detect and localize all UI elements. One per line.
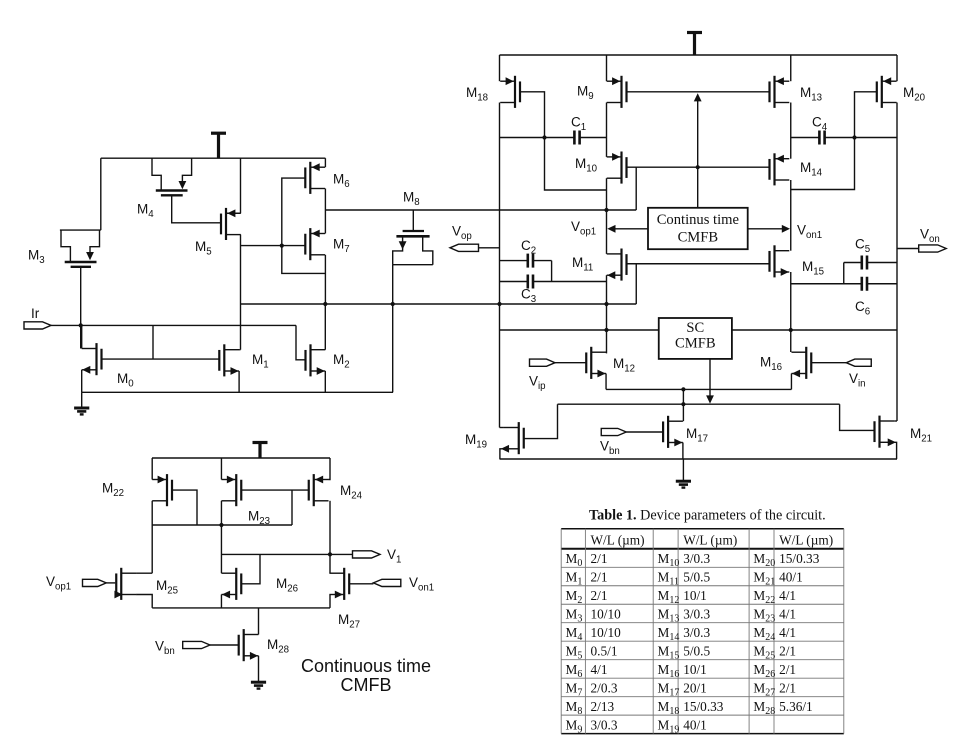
svg-text:C3: C3 bbox=[521, 287, 536, 306]
svg-text:M12: M12 bbox=[658, 588, 680, 606]
port Von1_c bbox=[373, 579, 400, 586]
svg-text:M27: M27 bbox=[753, 681, 775, 699]
wire Vin lead bbox=[812, 362, 847, 364]
transistor M17 bbox=[663, 416, 683, 448]
svg-text:M15: M15 bbox=[802, 259, 824, 278]
transistor M0 bbox=[82, 343, 102, 375]
wire SC output down bbox=[709, 359, 711, 400]
port Vop1_c bbox=[83, 579, 107, 586]
wire C6 left lead bbox=[791, 283, 862, 285]
wire M5-M7 gate wire bbox=[241, 245, 306, 247]
VDD supply bbox=[253, 443, 268, 459]
wire M9 drain up bbox=[606, 55, 608, 81]
svg-text:M9: M9 bbox=[566, 718, 583, 736]
svg-text:M20: M20 bbox=[753, 551, 775, 569]
svg-text:M8: M8 bbox=[403, 190, 420, 209]
ground bbox=[676, 481, 691, 487]
svg-text:Vin: Vin bbox=[849, 371, 866, 390]
svg-text:M7: M7 bbox=[333, 237, 350, 256]
svg-text:M18: M18 bbox=[466, 85, 488, 104]
svg-text:M23: M23 bbox=[753, 607, 775, 625]
wire C5-C6 join bbox=[843, 263, 845, 284]
junction M8 line at VSS wire bbox=[391, 302, 395, 306]
wire M13 drain up bbox=[790, 55, 792, 81]
wire M19 source down bbox=[500, 449, 504, 459]
wire M9 source down bbox=[606, 103, 608, 157]
wire M2 drain up bbox=[324, 304, 326, 350]
svg-text:M22: M22 bbox=[753, 588, 775, 606]
arrow Von1 bbox=[782, 225, 790, 233]
junction bias at cascode node bbox=[604, 208, 608, 212]
wire Ir to gate wire tap bbox=[152, 325, 154, 359]
wire Von1 wire bbox=[748, 228, 789, 230]
transistor M14 bbox=[770, 153, 790, 185]
transistor M28 bbox=[239, 629, 259, 661]
svg-text:M5: M5 bbox=[566, 644, 583, 662]
VDD supply bbox=[687, 33, 702, 56]
svg-text:CMFB: CMFB bbox=[678, 230, 719, 246]
transistor M3 bbox=[60, 230, 101, 267]
svg-text:M26: M26 bbox=[753, 662, 775, 680]
wire M12 source down bbox=[605, 374, 607, 390]
wire VSS wire bbox=[241, 303, 637, 305]
svg-text:M23: M23 bbox=[248, 509, 270, 528]
svg-text:Von: Von bbox=[920, 227, 940, 246]
block SC CMFB bbox=[659, 318, 732, 359]
wire M27 source down bbox=[329, 595, 331, 608]
wire M5 source down to M1 drain bbox=[240, 235, 242, 350]
port Vin bbox=[846, 359, 871, 366]
svg-text:5.36/1: 5.36/1 bbox=[779, 699, 813, 714]
block Continus time CMFB bbox=[648, 208, 748, 249]
svg-text:Table 1. Device parameters of: Table 1. Device parameters of the circui… bbox=[589, 508, 826, 524]
svg-text:10/1: 10/1 bbox=[683, 588, 707, 603]
svg-text:W/L (µm): W/L (µm) bbox=[591, 532, 645, 547]
wire M24 drain down bbox=[329, 501, 331, 573]
svg-text:M21: M21 bbox=[910, 426, 932, 445]
svg-text:Vbn: Vbn bbox=[155, 639, 175, 658]
capacitor C5 bbox=[862, 256, 867, 270]
transistor M23 bbox=[221, 474, 241, 506]
wire right column bbox=[896, 103, 898, 422]
wire C6 right lead bbox=[867, 283, 897, 285]
svg-text:M13: M13 bbox=[658, 607, 680, 625]
svg-text:M28: M28 bbox=[753, 699, 775, 717]
wire M2 source down bbox=[324, 371, 326, 392]
capacitor C6 bbox=[862, 277, 867, 291]
svg-text:SC: SC bbox=[686, 320, 704, 336]
wire M25 drain up bbox=[136, 572, 152, 574]
wire M18 gate line bbox=[521, 92, 607, 190]
svg-text:M15: M15 bbox=[658, 644, 680, 662]
svg-text:Ir: Ir bbox=[31, 306, 40, 321]
svg-text:5/0.5: 5/0.5 bbox=[683, 570, 710, 585]
wire main bottom rail bbox=[500, 458, 898, 460]
svg-text:Continuous time: Continuous time bbox=[301, 656, 431, 676]
junction M18 gate at C1 wire bbox=[542, 135, 546, 139]
wire Vop1 lead bbox=[106, 582, 115, 584]
wire C4 left lead bbox=[791, 137, 820, 139]
wire gate wire to mirror node bbox=[291, 490, 293, 525]
svg-text:C1: C1 bbox=[571, 115, 586, 134]
wire M19 drain up bbox=[500, 427, 504, 429]
wire M28 source down bbox=[258, 656, 260, 681]
junction Ir node at M3 gate bbox=[79, 323, 83, 327]
wire tail to M17 drain bbox=[682, 389, 684, 421]
svg-text:M6: M6 bbox=[566, 662, 583, 680]
wire M22 gate loop bbox=[172, 490, 197, 525]
transistor M9 bbox=[607, 76, 627, 108]
svg-text:M0: M0 bbox=[566, 551, 583, 569]
VDD supply bbox=[211, 133, 226, 158]
junction M11 source at VSS bbox=[604, 302, 608, 306]
wire CMFB output to M9/M13 gates bbox=[697, 97, 699, 208]
svg-text:M14: M14 bbox=[658, 625, 680, 643]
wire M16 source down bbox=[790, 374, 792, 390]
wire C3 right lead bbox=[533, 281, 607, 283]
wire M1 source down bbox=[238, 371, 240, 392]
svg-text:2/1: 2/1 bbox=[591, 570, 608, 585]
wire M24 source up bbox=[329, 458, 330, 480]
junction M17 drain at tail wire bbox=[681, 387, 685, 391]
wire M21 source down bbox=[894, 442, 896, 459]
wire M13 source down bbox=[790, 103, 792, 159]
svg-text:M8: M8 bbox=[566, 699, 583, 717]
wire left ground rail bbox=[82, 391, 393, 393]
wire M4 gate to M5 gate bbox=[172, 195, 221, 223]
junction vss crossing left column bbox=[497, 302, 501, 306]
svg-text:3/0.3: 3/0.3 bbox=[591, 718, 618, 733]
wire M27 gate lead bbox=[349, 583, 373, 585]
wire M6 drain down to bias node bbox=[324, 189, 326, 234]
wire cmfb VDD rail bbox=[152, 457, 330, 459]
svg-text:C4: C4 bbox=[812, 115, 828, 134]
wire M23-M24 gate wire bbox=[241, 489, 308, 491]
svg-text:M6: M6 bbox=[333, 172, 350, 191]
svg-text:M25: M25 bbox=[753, 644, 775, 662]
svg-text:M1: M1 bbox=[252, 352, 269, 371]
capacitor C2 bbox=[528, 254, 533, 268]
wire C5 left lead bbox=[844, 262, 862, 264]
transistor M22 bbox=[152, 474, 172, 506]
arrow CMFB up bbox=[694, 93, 702, 101]
wire M3 top bar to rail bbox=[100, 158, 102, 230]
wire VSS riser to cascode gates bbox=[635, 264, 637, 304]
arrow SC down bbox=[706, 395, 714, 403]
wire V1 wire bbox=[221, 553, 352, 555]
wire main ground stem bbox=[682, 459, 684, 480]
wire M21 drain up bbox=[894, 420, 897, 422]
wire M5 drain to rail bbox=[226, 212, 241, 214]
wire M21 gate loop bbox=[840, 404, 875, 430]
svg-text:CMFB: CMFB bbox=[341, 675, 392, 695]
svg-text:2/0.3: 2/0.3 bbox=[591, 681, 618, 696]
wire M22 source up bbox=[151, 458, 153, 480]
port Vbn_c bbox=[183, 641, 210, 648]
wire M22 drain down bbox=[151, 501, 153, 525]
junction M15 source at SC wire bbox=[789, 328, 793, 332]
svg-text:4/1: 4/1 bbox=[779, 588, 796, 603]
svg-text:4/1: 4/1 bbox=[779, 607, 796, 622]
svg-text:M25: M25 bbox=[156, 578, 178, 597]
wire bias wire first-stage output bbox=[325, 209, 636, 211]
svg-text:3/0.3: 3/0.3 bbox=[683, 607, 710, 622]
wire SC right wire bbox=[732, 329, 897, 331]
wire M1 drain up bbox=[239, 349, 240, 351]
wire M25 source down bbox=[136, 595, 152, 608]
wire M11 source down bbox=[606, 275, 608, 353]
wire left column top bbox=[499, 55, 501, 81]
svg-text:M20: M20 bbox=[903, 85, 926, 104]
wire C3 left lead bbox=[500, 281, 528, 283]
wire M19-M21 gate wire bbox=[558, 403, 840, 405]
port Von bbox=[919, 245, 947, 252]
junction M20 gate at C4 wire bbox=[852, 135, 856, 139]
svg-text:2/1: 2/1 bbox=[779, 644, 796, 659]
svg-text:10/1: 10/1 bbox=[683, 662, 707, 677]
svg-text:M0: M0 bbox=[117, 371, 134, 390]
wire C5 right lead bbox=[867, 262, 897, 264]
transistor M10 bbox=[607, 152, 627, 184]
svg-text:CMFB: CMFB bbox=[675, 336, 716, 352]
wire M9-M13 gate wire bbox=[627, 91, 770, 93]
transistor M2 bbox=[306, 344, 326, 376]
svg-text:C6: C6 bbox=[855, 299, 870, 318]
svg-text:M13: M13 bbox=[800, 85, 822, 104]
svg-text:Von1: Von1 bbox=[797, 223, 822, 242]
svg-text:M10: M10 bbox=[575, 156, 598, 175]
svg-text:Vop1: Vop1 bbox=[571, 219, 596, 238]
junction V1 at M24 drain bbox=[328, 552, 332, 556]
wire tail wire bbox=[606, 388, 791, 390]
svg-text:M14: M14 bbox=[800, 160, 823, 179]
wire C1 left lead bbox=[500, 137, 575, 139]
wire left VDD rail bbox=[101, 157, 326, 159]
wire Vbn lead bbox=[626, 431, 663, 433]
svg-text:4/1: 4/1 bbox=[779, 625, 796, 640]
svg-text:2/1: 2/1 bbox=[591, 588, 608, 603]
svg-text:M19: M19 bbox=[465, 432, 487, 451]
transistor M11 bbox=[607, 249, 627, 281]
svg-text:10/10: 10/10 bbox=[591, 607, 622, 622]
transistor M16 bbox=[791, 347, 811, 379]
transistor M19 bbox=[501, 422, 524, 454]
port Ir bbox=[24, 322, 51, 329]
wire SC left wire bbox=[500, 329, 659, 331]
svg-text:2/13: 2/13 bbox=[591, 699, 615, 714]
wire M23 drain down bbox=[220, 501, 222, 573]
svg-text:M18: M18 bbox=[658, 699, 680, 717]
capacitor C1 bbox=[574, 131, 579, 145]
transistor M12 bbox=[586, 347, 606, 379]
transistor M6 bbox=[305, 162, 325, 194]
wire mirror node wire bbox=[152, 524, 292, 526]
svg-text:M7: M7 bbox=[566, 681, 583, 699]
wire M25 drain riser bbox=[151, 525, 153, 573]
transistor M20 bbox=[877, 76, 897, 108]
svg-text:M11: M11 bbox=[658, 570, 679, 588]
svg-text:M4: M4 bbox=[566, 625, 583, 643]
transistor M4 bbox=[152, 158, 192, 195]
svg-text:2/1: 2/1 bbox=[779, 681, 796, 696]
svg-text:M27: M27 bbox=[338, 612, 360, 631]
transistor M5 bbox=[221, 208, 241, 240]
svg-text:M28: M28 bbox=[267, 637, 289, 656]
transistor M24 bbox=[309, 474, 329, 506]
wire M10 source down bbox=[606, 178, 608, 254]
transistor M13 bbox=[770, 76, 790, 108]
wire M11-M15 gate wire bbox=[627, 263, 770, 265]
svg-text:M22: M22 bbox=[102, 481, 124, 500]
junction M23 drain at mirror wire bbox=[219, 523, 223, 527]
wire Von lead bbox=[897, 248, 919, 250]
wire M10-M14 gate wire bbox=[627, 166, 770, 168]
svg-text:V1: V1 bbox=[387, 547, 401, 566]
wire M6 source to rail bbox=[324, 158, 326, 167]
svg-text:2/1: 2/1 bbox=[779, 662, 796, 677]
svg-text:0.5/1: 0.5/1 bbox=[591, 644, 618, 659]
wire Ir wire bbox=[51, 324, 296, 326]
svg-text:Vbn: Vbn bbox=[600, 439, 620, 458]
svg-text:M17: M17 bbox=[686, 426, 708, 445]
svg-text:M24: M24 bbox=[753, 625, 775, 643]
svg-text:40/1: 40/1 bbox=[683, 718, 707, 733]
wire M0-M1 gate wire bbox=[102, 358, 220, 360]
wire M19 gate loop bbox=[524, 404, 557, 438]
svg-text:M9: M9 bbox=[577, 84, 594, 103]
svg-text:W/L (µm): W/L (µm) bbox=[683, 532, 737, 547]
svg-text:M4: M4 bbox=[137, 202, 154, 221]
svg-text:Vop: Vop bbox=[452, 224, 472, 243]
transistor M21 bbox=[875, 416, 896, 448]
svg-text:Continus time: Continus time bbox=[657, 212, 739, 228]
svg-text:3/0.3: 3/0.3 bbox=[683, 551, 710, 566]
wire M26 gate loop bbox=[241, 554, 260, 583]
svg-text:M26: M26 bbox=[276, 576, 298, 595]
svg-text:M24: M24 bbox=[340, 483, 363, 502]
wire M17 source down bbox=[682, 443, 684, 460]
svg-text:M12: M12 bbox=[613, 356, 635, 375]
svg-text:M11: M11 bbox=[572, 255, 593, 274]
svg-text:M19: M19 bbox=[658, 718, 680, 736]
wire M5 drain vertical bbox=[240, 158, 242, 213]
svg-text:15/0.33: 15/0.33 bbox=[779, 551, 820, 566]
wire Vbn cmfb lead bbox=[210, 644, 239, 646]
wire M0 drain up bbox=[81, 325, 83, 348]
junction M6 gate loop on gate wire bbox=[280, 244, 284, 248]
svg-text:4/1: 4/1 bbox=[591, 662, 608, 677]
wire M23 source up bbox=[220, 458, 222, 480]
svg-text:2/1: 2/1 bbox=[591, 551, 608, 566]
svg-text:20/1: 20/1 bbox=[683, 681, 707, 696]
svg-text:M3: M3 bbox=[566, 607, 583, 625]
wire M2 gate jog bbox=[296, 325, 306, 359]
junction VSS at M7 line bbox=[323, 302, 327, 306]
wire bias riser bbox=[635, 167, 637, 210]
svg-text:M16: M16 bbox=[658, 662, 680, 680]
ground bbox=[74, 392, 89, 414]
svg-text:M1: M1 bbox=[566, 570, 583, 588]
junction M11 source at SC wire bbox=[604, 328, 608, 332]
wire M3 gate to Ir node bbox=[80, 267, 82, 349]
svg-text:15/0.33: 15/0.33 bbox=[683, 699, 724, 714]
wire M8 bulk to ground rail bbox=[392, 265, 394, 393]
svg-text:3/0.3: 3/0.3 bbox=[683, 625, 710, 640]
wire M12 drain up bbox=[605, 351, 607, 353]
wire M6 gate loop bbox=[282, 178, 326, 273]
svg-text:M5: M5 bbox=[195, 239, 212, 258]
wire main VDD rail bbox=[500, 54, 898, 56]
port V1 bbox=[353, 551, 381, 558]
svg-text:M2: M2 bbox=[566, 588, 583, 606]
svg-text:Vop1: Vop1 bbox=[46, 574, 71, 593]
svg-text:M3: M3 bbox=[28, 248, 45, 267]
svg-text:M21: M21 bbox=[753, 570, 775, 588]
transistor M18 bbox=[500, 76, 520, 108]
svg-text:10/10: 10/10 bbox=[591, 625, 622, 640]
wire C2-C3 join bbox=[551, 261, 553, 282]
junction CMFB line at M10 gate wire bbox=[696, 165, 700, 169]
wire C4 right lead bbox=[825, 137, 897, 139]
wire C1 right lead bbox=[580, 137, 607, 139]
port Vop bbox=[450, 244, 479, 251]
svg-text:M17: M17 bbox=[658, 681, 680, 699]
wire M28 drain up bbox=[258, 608, 260, 635]
transistor M15 bbox=[770, 245, 790, 277]
svg-text:M2: M2 bbox=[333, 352, 350, 371]
svg-text:M10: M10 bbox=[658, 551, 680, 569]
transistor M7 bbox=[305, 228, 325, 260]
wire left column bbox=[499, 103, 501, 428]
svg-text:Vip: Vip bbox=[529, 374, 546, 393]
wire cmfb tail wire bbox=[152, 607, 330, 609]
capacitor C3 bbox=[528, 275, 533, 289]
svg-text:M16: M16 bbox=[760, 355, 782, 374]
wire M14 source down bbox=[790, 180, 792, 251]
svg-text:C5: C5 bbox=[855, 237, 870, 256]
transistor M1 bbox=[219, 344, 239, 376]
svg-text:40/1: 40/1 bbox=[779, 570, 803, 585]
arrow Vop1 bbox=[607, 225, 615, 233]
svg-text:5/0.5: 5/0.5 bbox=[683, 644, 710, 659]
wire C2 left lead bbox=[500, 260, 528, 262]
transistor M8 bbox=[393, 210, 433, 265]
port Vbn bbox=[601, 428, 626, 435]
wire M7 source down bbox=[324, 255, 326, 304]
wire right column top bbox=[896, 55, 898, 81]
wire Vop lead bbox=[479, 247, 500, 249]
port Vip bbox=[530, 359, 556, 366]
svg-text:W/L (µm): W/L (µm) bbox=[779, 532, 833, 547]
junction M17 drain at gate wire bbox=[681, 402, 685, 406]
transistor M25 bbox=[114, 568, 136, 600]
wire M20 gate line bbox=[791, 92, 877, 190]
transistor M26 bbox=[221, 568, 241, 600]
svg-text:Von1: Von1 bbox=[409, 575, 434, 594]
transistor M27 bbox=[329, 568, 349, 600]
capacitor C4 bbox=[819, 131, 824, 145]
wire Vop1 wire bbox=[609, 228, 648, 230]
wire M26 source down bbox=[220, 595, 222, 608]
wire M0 source down bbox=[81, 370, 83, 393]
ground bbox=[251, 682, 266, 688]
wire C2 right lead bbox=[533, 260, 552, 262]
wire M15 source down bbox=[790, 272, 792, 352]
wire Vip lead bbox=[555, 362, 586, 364]
